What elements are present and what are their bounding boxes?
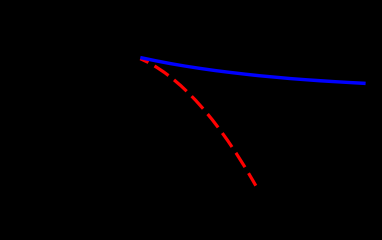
red dashed steep decaying curve [140, 59, 256, 186]
blue solid decaying curve [140, 58, 365, 84]
